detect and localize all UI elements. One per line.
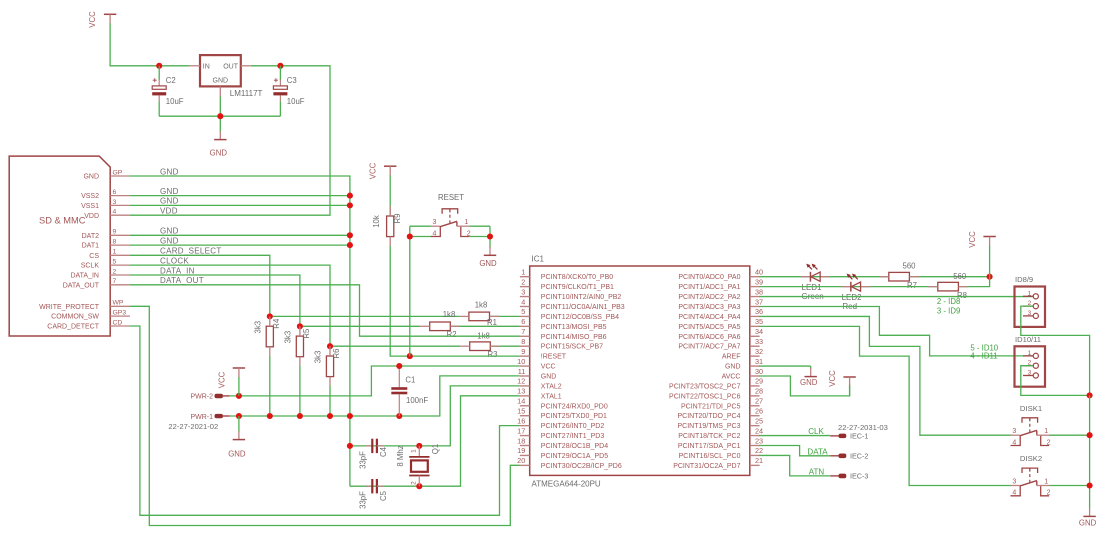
svg-text:OUT: OUT [223, 63, 239, 70]
junction GND rail [297, 413, 303, 419]
svg-text:AREF: AREF [722, 354, 741, 361]
svg-text:GND: GND [725, 364, 741, 371]
connector pin PWR-2 [190, 394, 229, 401]
svg-text:PCINT0/ADC0_PA0: PCINT0/ADC0_PA0 [678, 274, 740, 281]
wire CARD_SELECT net [130, 255, 520, 316]
wire WRITE_PROTECT net (to IC pin 20) [130, 306, 520, 525]
svg-text:VSS2: VSS2 [81, 193, 99, 200]
svg-text:GND: GND [1079, 518, 1097, 527]
wire CARD_DETECT net (to IC pin 16) [130, 326, 520, 515]
svg-text:XTAL2: XTAL2 [541, 383, 562, 390]
LED LED2 Red [841, 274, 870, 292]
resistor R9 10k [372, 176, 402, 246]
svg-text:IEC-1: IEC-1 [850, 431, 868, 440]
svg-text:WP: WP [113, 300, 124, 307]
svg-text:DATA_IN: DATA_IN [70, 273, 99, 280]
svg-text:IN: IN [203, 63, 210, 70]
wire DATA net (IC pin 23 to IEC-2) [759, 446, 830, 456]
power symbol VCC (top left) [88, 11, 116, 28]
svg-text:R3: R3 [488, 350, 498, 359]
svg-text:DATA_OUT: DATA_OUT [160, 276, 204, 285]
svg-text:LED1: LED1 [802, 283, 823, 292]
wire CLK net (IC pin 24 to IEC-1) [759, 435, 830, 437]
IC U1 pins [517, 268, 763, 470]
svg-text:10: 10 [517, 357, 525, 366]
wire DISK1 net (IC pin 36) [759, 316, 1011, 435]
capacitor C3 10uF [273, 66, 304, 116]
junction DISK2 [1087, 482, 1093, 488]
svg-text:PCINT24/RXD0_PD0: PCINT24/RXD0_PD0 [541, 403, 608, 410]
svg-text:VCC: VCC [88, 11, 97, 28]
svg-text:10k: 10k [372, 215, 381, 228]
svg-text:R9: R9 [393, 214, 402, 224]
svg-text:GND: GND [160, 197, 179, 206]
svg-text:2 - ID8: 2 - ID8 [937, 297, 960, 306]
wire regulator output to VDD [130, 66, 330, 215]
junction DAT1 [347, 242, 353, 248]
svg-text:6: 6 [113, 189, 117, 196]
svg-text:3: 3 [1012, 428, 1016, 435]
resistor R3 1k8 [460, 342, 500, 351]
svg-text:CLK: CLK [808, 427, 824, 436]
wire GND power net (PWR-1 to IC pin 11) [230, 376, 520, 416]
svg-text:34: 34 [755, 327, 763, 336]
svg-text:CLOCK: CLOCK [160, 256, 189, 265]
svg-text:VCC: VCC [828, 370, 837, 387]
wire LED2 net (IC pin 39) [759, 277, 990, 287]
svg-text:IEC-3: IEC-3 [850, 472, 868, 481]
wire DATA_OUT net [130, 285, 520, 336]
svg-text:DATA_IN: DATA_IN [160, 266, 195, 275]
power symbol VCC (AVCC) [828, 370, 856, 396]
svg-text:PCINT18/TCK_PC2: PCINT18/TCK_PC2 [678, 433, 740, 440]
IC U1 ATMEGA644-20PU body [530, 266, 750, 475]
svg-text:1: 1 [411, 449, 418, 453]
wire DATA_IN net [130, 275, 520, 326]
svg-text:2: 2 [1047, 439, 1051, 446]
svg-text:R5: R5 [302, 328, 311, 339]
svg-text:30: 30 [755, 367, 763, 376]
svg-text:2: 2 [1047, 490, 1051, 497]
svg-text:2: 2 [521, 277, 525, 286]
svg-text:33: 33 [755, 337, 763, 346]
svg-text:15: 15 [517, 407, 525, 416]
junction VSS1 [347, 202, 353, 208]
svg-text:CARD_DETECT: CARD_DETECT [47, 324, 99, 331]
junction RESET right [487, 233, 493, 239]
wire LED1 net (IC pin 40) [759, 276, 990, 278]
svg-text:19: 19 [517, 446, 525, 455]
connector pin PWR-1 [190, 414, 229, 421]
pushbutton DISK2 [1011, 468, 1051, 497]
svg-text:GND: GND [160, 167, 179, 176]
svg-text:PCINT20/TDO_PC4: PCINT20/TDO_PC4 [677, 413, 740, 420]
svg-text:DATA_OUT: DATA_OUT [63, 282, 100, 289]
svg-text:3: 3 [1028, 310, 1032, 317]
svg-text:GND: GND [541, 374, 557, 381]
connector SD & MMC card socket [9, 156, 130, 336]
svg-text:VDD: VDD [84, 213, 99, 220]
wire GND net (IC pin 31) [759, 365, 811, 367]
svg-text:PWR-2: PWR-2 [190, 394, 213, 401]
svg-text:GND: GND [160, 227, 179, 236]
svg-text:ATN: ATN [809, 468, 825, 477]
junction C3 top [277, 63, 283, 69]
svg-text:3: 3 [432, 219, 436, 226]
svg-text:Q1: Q1 [431, 444, 440, 454]
wire R6 to GND rail [329, 386, 331, 417]
connector pin IEC-1 [830, 431, 868, 440]
wire ATN net (IC pin 22 to IEC-3) [759, 455, 830, 475]
ground symbol GND (regulator) [210, 131, 228, 158]
svg-text:LED2: LED2 [842, 293, 863, 302]
svg-text:GND: GND [160, 236, 179, 245]
svg-text:22-27-2031-03: 22-27-2031-03 [838, 423, 888, 432]
svg-text:GND: GND [800, 378, 818, 387]
junction GND rail right [1087, 392, 1093, 398]
svg-text:18: 18 [517, 436, 525, 445]
svg-text:GND: GND [83, 174, 99, 181]
resistor R7 560 [879, 272, 919, 281]
power symbol VCC (R9) [369, 162, 397, 179]
svg-text:R4: R4 [272, 318, 281, 329]
capacitor C5 33pF [359, 479, 388, 509]
svg-text:PCINT22/TOSC1_PC6: PCINT22/TOSC1_PC6 [669, 393, 741, 400]
svg-text:27: 27 [755, 397, 763, 406]
svg-text:22: 22 [755, 446, 763, 455]
svg-text:40: 40 [755, 268, 763, 277]
svg-text:6: 6 [521, 317, 525, 326]
wire DISK2 net (IC pin 35) [759, 326, 1011, 485]
svg-text:36: 36 [755, 307, 763, 316]
pushbutton DISK1 [1011, 418, 1051, 447]
junction DAT2 [347, 232, 353, 238]
svg-text:PCINT6/ADC6_PA6: PCINT6/ADC6_PA6 [678, 334, 740, 341]
wire VCC input net [110, 27, 190, 66]
svg-text:8 Mhz: 8 Mhz [396, 445, 405, 466]
svg-text:38: 38 [755, 287, 763, 296]
svg-text:IEC-2: IEC-2 [850, 451, 868, 460]
svg-text:C3: C3 [287, 76, 297, 85]
svg-text:1: 1 [1044, 428, 1048, 435]
wire DISK1 pin1 to GND rail [1049, 395, 1090, 485]
svg-text:32: 32 [755, 347, 763, 356]
svg-text:PCINT16/SCL_PC0: PCINT16/SCL_PC0 [679, 453, 741, 460]
svg-text:PCINT3/ADC3_PA3: PCINT3/ADC3_PA3 [678, 304, 740, 311]
wire VCC power net (PWR-2 to IC pin 10) [230, 366, 520, 396]
svg-text:8: 8 [521, 337, 525, 346]
svg-text:7: 7 [521, 327, 525, 336]
wire GND net from card [130, 176, 350, 486]
svg-text:R6: R6 [332, 349, 341, 359]
svg-text:39: 39 [755, 277, 763, 286]
svg-text:13: 13 [517, 387, 525, 396]
svg-text:PCINT30/OC2B/ICP_PD6: PCINT30/OC2B/ICP_PD6 [541, 463, 622, 470]
svg-text:AVCC: AVCC [722, 374, 741, 381]
svg-text:DAT2: DAT2 [82, 233, 99, 240]
svg-text:14: 14 [517, 397, 525, 406]
junction GND rail [347, 413, 353, 419]
svg-text:PCINT28/OC1B_PD4: PCINT28/OC1B_PD4 [541, 443, 608, 450]
svg-text:PCINT17/SDA_PC1: PCINT17/SDA_PC1 [678, 443, 741, 450]
svg-text:4 - ID11: 4 - ID11 [970, 351, 997, 360]
wire R4 to GND rail [269, 356, 271, 416]
resistor R8 560 [928, 282, 968, 291]
svg-text:5: 5 [113, 259, 117, 266]
junction GND rail [327, 413, 333, 419]
svg-text:4: 4 [1012, 439, 1016, 446]
crystal Q1 8 Mhz [396, 444, 440, 486]
svg-text:IC1: IC1 [532, 255, 545, 264]
svg-text:VCC: VCC [968, 231, 977, 248]
wire CLOCK net [130, 265, 520, 346]
svg-text:LM1117T: LM1117T [230, 89, 263, 98]
svg-text:CARD_SELECT: CARD_SELECT [160, 247, 222, 256]
power symbol VCC (power rows) [217, 368, 245, 396]
svg-text:29: 29 [755, 377, 763, 386]
svg-text:VSS1: VSS1 [81, 203, 99, 210]
svg-text:C5: C5 [379, 490, 388, 501]
resistor R6 3k3 [314, 346, 341, 385]
junction crystal pin 2 [416, 483, 422, 489]
ground symbol GND (power rows) [228, 416, 246, 459]
svg-text:2: 2 [411, 481, 418, 485]
junction DISK1 [1087, 432, 1093, 438]
wire R5 to GND rail [299, 366, 301, 416]
junction PWR-2 VCC stem [236, 393, 242, 399]
svg-text:PCINT26/INT0_PD2: PCINT26/INT0_PD2 [541, 423, 605, 430]
svg-text:GP3: GP3 [113, 310, 127, 317]
svg-text:GND: GND [213, 78, 229, 85]
svg-text:3: 3 [1012, 478, 1016, 485]
wire XTAL1 net [350, 396, 520, 486]
svg-text:4: 4 [113, 209, 117, 216]
capacitor C1 100nF [391, 366, 428, 416]
svg-text:3: 3 [521, 287, 525, 296]
svg-text:26: 26 [755, 407, 763, 416]
svg-text:R2: R2 [447, 330, 457, 339]
svg-text:1k8: 1k8 [475, 300, 488, 309]
svg-text:VDD: VDD [160, 207, 178, 216]
resistor R4 3k3 [254, 316, 281, 355]
svg-text:PCINT5/ADC5_PA5: PCINT5/ADC5_PA5 [678, 324, 740, 331]
junction VCC LED rail [987, 274, 993, 280]
svg-text:DISK2: DISK2 [1020, 454, 1042, 463]
svg-text:SCLK: SCLK [81, 263, 100, 270]
svg-text:R1: R1 [487, 318, 497, 327]
svg-text:C2: C2 [166, 76, 176, 85]
voltage regulator IC LM1117T [190, 55, 263, 98]
svg-text:PCINT1/ADC1_PA1: PCINT1/ADC1_PA1 [678, 284, 740, 291]
svg-text:VCC: VCC [369, 162, 378, 179]
svg-text:3: 3 [1028, 370, 1032, 377]
svg-text:35: 35 [755, 317, 763, 326]
junction regulator GND [217, 113, 223, 119]
svg-text:CD: CD [113, 319, 123, 326]
svg-text:560: 560 [902, 262, 916, 271]
svg-text:PCINT10/INT2/AIN0_PB2: PCINT10/INT2/AIN0_PB2 [541, 294, 622, 301]
svg-text:R7: R7 [907, 281, 917, 290]
svg-text:9: 9 [113, 229, 117, 236]
capacitor C2 10uF [152, 66, 184, 116]
junction CLOCK / R6 [327, 343, 333, 349]
svg-text:8: 8 [113, 239, 117, 246]
junction CARD_SELECT / R4 [267, 313, 273, 319]
junction GND rail [396, 413, 402, 419]
svg-text:PCINT4/ADC4_PA4: PCINT4/ADC4_PA4 [678, 314, 740, 321]
svg-text:SD & MMC: SD & MMC [39, 216, 86, 226]
connector ID10/11 [1015, 335, 1046, 387]
svg-text:21: 21 [755, 456, 763, 465]
svg-text:3: 3 [113, 199, 117, 206]
wire ID8/9 pin2 to GND rail [1021, 306, 1090, 395]
wire ID10/11 pin2 to GND rail [1021, 366, 1090, 396]
svg-text:DATA: DATA [807, 448, 828, 457]
svg-text:3k3: 3k3 [314, 351, 323, 364]
junction C4 left [347, 443, 353, 449]
svg-text:9: 9 [521, 347, 525, 356]
svg-text:COMMON_SW: COMMON_SW [51, 314, 99, 321]
svg-text:33pF: 33pF [359, 491, 368, 509]
svg-text:23: 23 [755, 436, 763, 445]
junction C2 top [156, 63, 162, 69]
resistor R2 1k8 [420, 322, 460, 331]
svg-text:GND: GND [479, 259, 497, 268]
connector pin IEC-2 [830, 451, 868, 460]
svg-text:1k8: 1k8 [443, 310, 456, 319]
junction DATA_IN / R5 [297, 323, 303, 329]
svg-text:12: 12 [517, 377, 525, 386]
svg-text:22-27-2021-02: 22-27-2021-02 [168, 422, 218, 431]
svg-text:10uF: 10uF [287, 97, 305, 106]
svg-text:2: 2 [113, 268, 117, 275]
wire AVCC net (IC pin 30) [759, 376, 850, 396]
svg-text:C4: C4 [379, 446, 388, 457]
wire DISK2 pin1 to GND rail [1049, 486, 1090, 503]
svg-text:ATMEGA644-20PU: ATMEGA644-20PU [532, 480, 601, 489]
junction GND rail [236, 413, 242, 419]
svg-text:PCINT7/ADC7_PA7: PCINT7/ADC7_PA7 [678, 344, 740, 351]
junction RESET switch branch [407, 353, 413, 359]
svg-text:C1: C1 [405, 376, 415, 385]
svg-text:16: 16 [517, 416, 525, 425]
svg-text:560: 560 [953, 272, 967, 281]
svg-text:PCINT8/XCK0/T0_PB0: PCINT8/XCK0/T0_PB0 [541, 274, 613, 281]
svg-text:4: 4 [432, 230, 436, 237]
svg-text:4: 4 [521, 297, 525, 306]
power symbol VCC (LED rail) [968, 231, 996, 277]
resistor R5 3k3 [284, 326, 311, 365]
svg-text:PCINT29/OC1A_PD5: PCINT29/OC1A_PD5 [541, 453, 608, 460]
svg-text:1: 1 [521, 268, 525, 277]
capacitor C4 33pF [359, 439, 388, 469]
svg-text:GND: GND [210, 149, 228, 158]
svg-text:28: 28 [755, 387, 763, 396]
svg-text:XTAL1: XTAL1 [541, 393, 562, 400]
svg-text:WRITE_PROTECT: WRITE_PROTECT [39, 304, 100, 311]
svg-text:4: 4 [1012, 490, 1016, 497]
svg-text:24: 24 [755, 426, 763, 435]
svg-text:1: 1 [113, 249, 117, 256]
svg-text:5: 5 [521, 307, 525, 316]
svg-text:33pF: 33pF [359, 451, 368, 469]
wire XTAL2 net [350, 386, 520, 446]
svg-text:GND: GND [228, 450, 246, 459]
svg-text:CS: CS [89, 253, 99, 260]
svg-text:ID10/11: ID10/11 [1015, 335, 1041, 344]
svg-text:11: 11 [518, 367, 526, 376]
svg-text:DAT1: DAT1 [82, 243, 99, 250]
svg-text:25: 25 [755, 416, 763, 425]
junction crystal pin 1 [416, 443, 422, 449]
svg-text:3 - ID9: 3 - ID9 [937, 307, 960, 316]
svg-text:!RESET: !RESET [541, 354, 567, 361]
svg-text:PCINT12/OC0B/SS_PB4: PCINT12/OC0B/SS_PB4 [541, 314, 619, 321]
ground symbol GND (RESET) [479, 246, 497, 268]
svg-text:1: 1 [1028, 290, 1032, 297]
svg-text:31: 31 [755, 357, 763, 366]
svg-text:3k3: 3k3 [254, 321, 263, 334]
svg-text:PCINT11/OC0A/AIN1_PB3: PCINT11/OC0A/AIN1_PB3 [541, 304, 625, 311]
ground symbol GND (pin 31) [800, 366, 818, 387]
svg-text:1: 1 [1044, 478, 1048, 485]
wire ID8 net (IC pin 38 to ID8/9 pin 1) [759, 296, 1033, 298]
svg-text:ID8/9: ID8/9 [1015, 275, 1033, 284]
svg-text:GND: GND [160, 187, 179, 196]
connector pin IEC-3 [830, 472, 868, 481]
svg-text:7: 7 [113, 278, 117, 285]
svg-text:PCINT23/TOSC2_PC7: PCINT23/TOSC2_PC7 [669, 383, 741, 390]
wire RESET switch left [410, 226, 431, 356]
svg-text:GP: GP [113, 169, 123, 176]
svg-text:VCC: VCC [217, 371, 226, 388]
svg-text:PCINT31/OC2A_PD7: PCINT31/OC2A_PD7 [673, 463, 740, 470]
connector ID8/9 [1015, 275, 1046, 327]
svg-text:PCINT25/TXD0_PD1: PCINT25/TXD0_PD1 [541, 413, 607, 420]
svg-text:PCINT2/ADC2_PA2: PCINT2/ADC2_PA2 [678, 294, 740, 301]
svg-text:10uF: 10uF [166, 97, 184, 106]
wire ID10 net (IC pin 37 to ID10/11 pin 1) [759, 306, 1033, 355]
svg-text:PCINT13/MOSI_PB5: PCINT13/MOSI_PB5 [541, 324, 607, 331]
svg-text:PCINT14/MISO_PB6: PCINT14/MISO_PB6 [541, 334, 607, 341]
svg-text:PCINT21/TDI_PC5: PCINT21/TDI_PC5 [681, 403, 741, 410]
svg-text:37: 37 [755, 297, 763, 306]
svg-text:PCINT19/TMS_PC3: PCINT19/TMS_PC3 [677, 423, 740, 430]
svg-text:17: 17 [517, 426, 525, 435]
svg-text:PCINT27/INT1_PD3: PCINT27/INT1_PD3 [541, 433, 605, 440]
junction VSS2 [347, 193, 353, 199]
wire RESET switch right [469, 226, 490, 246]
svg-text:VCC: VCC [541, 364, 556, 371]
svg-text:20: 20 [517, 456, 525, 465]
svg-text:PCINT15/SCK_PB7: PCINT15/SCK_PB7 [541, 344, 603, 351]
svg-text:1: 1 [464, 219, 468, 226]
junction RESET left [407, 233, 413, 239]
svg-text:100nF: 100nF [406, 396, 428, 405]
svg-text:3k3: 3k3 [284, 331, 293, 344]
junction GND rail [267, 413, 273, 419]
junction C1 top [396, 363, 402, 369]
resistor R1 1k8 [459, 312, 499, 321]
svg-text:PWR-1: PWR-1 [190, 414, 213, 421]
wire RESET net (R9 to IC pin 9) [390, 246, 520, 356]
pushbutton RESET [431, 209, 471, 238]
svg-text:DISK1: DISK1 [1020, 404, 1042, 413]
wire regulator ground net [159, 97, 280, 132]
ground symbol GND (bottom right) [1079, 502, 1097, 527]
svg-text:RESET: RESET [438, 193, 464, 202]
LED LED1 Green [801, 264, 830, 282]
